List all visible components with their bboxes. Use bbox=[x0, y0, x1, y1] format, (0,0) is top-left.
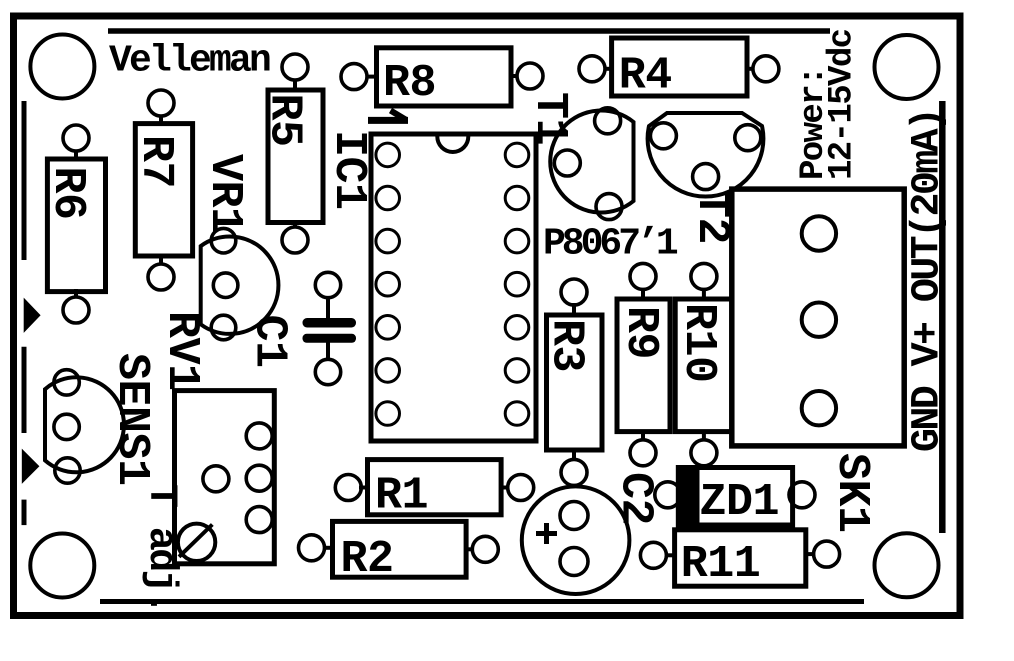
IC1 pin 1 marker bbox=[368, 111, 408, 121]
mounting hole bottom-right bbox=[875, 533, 939, 597]
svg-text:IC1: IC1 bbox=[323, 130, 374, 210]
svg-text:R3: R3 bbox=[541, 319, 592, 372]
mounting hole top-left bbox=[30, 35, 94, 99]
resistor R9 bbox=[615, 263, 670, 465]
capacitor C2 electrolytic bbox=[522, 472, 661, 594]
svg-text:12-15Vdc: 12-15Vdc bbox=[824, 29, 862, 180]
connector SK1 bbox=[732, 189, 904, 532]
svg-text:R10: R10 bbox=[673, 303, 724, 383]
svg-text:T adj.: T adj. bbox=[138, 484, 183, 612]
mounting hole bottom-left bbox=[30, 534, 94, 598]
resistor R3 bbox=[541, 279, 603, 485]
svg-text:GND V+ OUT(20mA): GND V+ OUT(20mA) bbox=[906, 110, 951, 452]
silkscreen line bottom bbox=[100, 599, 864, 604]
svg-text:VR1: VR1 bbox=[199, 154, 250, 234]
zener diode ZD1 bbox=[655, 465, 815, 528]
board edge dash 3 bbox=[22, 500, 27, 525]
resistor R4 bbox=[579, 38, 779, 102]
svg-text:SK1: SK1 bbox=[826, 453, 877, 533]
transistor T1 bbox=[524, 92, 634, 220]
mounting hole top-right bbox=[875, 35, 939, 99]
svg-text:R7: R7 bbox=[130, 135, 181, 188]
resistor R7 bbox=[130, 90, 193, 290]
svg-text:R5: R5 bbox=[259, 94, 310, 147]
svg-text:R11: R11 bbox=[681, 539, 761, 590]
capacitor C1 bbox=[244, 272, 357, 384]
svg-text:RV1: RV1 bbox=[156, 311, 207, 391]
svg-text:R6: R6 bbox=[42, 167, 93, 220]
svg-text:ZD1: ZD1 bbox=[700, 477, 780, 528]
svg-text:C1: C1 bbox=[244, 315, 295, 368]
silkscreen line top bbox=[108, 28, 830, 34]
svg-text:T1: T1 bbox=[524, 92, 575, 145]
svg-text:R2: R2 bbox=[341, 534, 394, 585]
resistor R1 bbox=[335, 460, 533, 522]
resistor R10 bbox=[673, 263, 732, 465]
svg-text:Velleman: Velleman bbox=[109, 40, 270, 83]
resistor R11 bbox=[640, 530, 839, 590]
board edge arrow 1 bbox=[24, 298, 41, 333]
silkscreen line right bbox=[939, 101, 946, 533]
transistor VR1 bbox=[199, 154, 278, 340]
resistor R2 bbox=[299, 521, 499, 584]
svg-text:P8067’1: P8067’1 bbox=[543, 223, 678, 266]
svg-text:SENS1: SENS1 bbox=[106, 353, 157, 486]
board edge dash 2 bbox=[22, 347, 27, 433]
svg-text:R8: R8 bbox=[383, 58, 436, 109]
svg-text:R1: R1 bbox=[375, 471, 428, 522]
svg-text:R4: R4 bbox=[619, 51, 672, 102]
board edge arrow 2 bbox=[22, 449, 40, 484]
svg-text:C2: C2 bbox=[610, 472, 661, 525]
resistor R8 bbox=[341, 48, 543, 109]
resistor R6 bbox=[42, 125, 106, 323]
resistor R5 bbox=[259, 54, 324, 253]
trimmer RV1 bbox=[156, 311, 274, 564]
board edge dash 1 bbox=[22, 101, 27, 260]
transistor T2 bbox=[648, 113, 764, 244]
sensor SENS1 bbox=[45, 353, 157, 486]
svg-text:R9: R9 bbox=[615, 306, 666, 359]
IC U1 (IC1) 14-pin DIP bbox=[323, 130, 536, 441]
